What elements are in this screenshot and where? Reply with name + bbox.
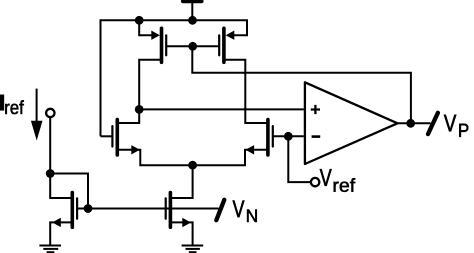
ground (tail) [182,246,204,253]
wire Iref node to mirror gates [50,174,88,209]
wire tail node to M5 drain [171,165,193,198]
wire op-amp output [398,122,431,124]
wire M1 source to tail node [118,150,193,165]
wire PMOS gate interconnect [166,45,219,47]
wire M3 drain to M1 drain [118,60,162,123]
VDD supply bar [183,0,202,3]
ground (left) [39,246,61,253]
transistor M1 (left diff-pair NMOS) [112,120,139,155]
wire M5 source to ground [171,222,193,245]
label VP [444,115,468,137]
wire M6 drain [50,174,73,199]
transistor M5 (tail NMOS) [166,193,191,228]
wire M3 source tap [139,20,153,35]
wire M2 gate lead / minus input [273,135,304,137]
wire Iref terminal drop [49,118,51,174]
junction NMOS mirror gate node [84,204,93,213]
port slash VN [216,200,224,220]
label VN [233,201,257,223]
label Iref [0,95,24,114]
wire top rail with left gate drop and right source drop [101,20,248,136]
wire Vref drop [288,136,310,182]
transistor M2 (right diff-pair NMOS) [246,120,273,155]
terminal Iref (open circle) [46,109,54,117]
wire VDD stub [191,3,193,21]
junction op-amp output node [406,119,415,128]
transistor M4 (right PMOS) [219,28,234,62]
wire M6 source to ground [50,222,73,245]
wire M2 source to tail node [193,150,267,165]
junction Iref node [46,169,55,178]
junction M3 source at rail [135,16,144,25]
junction tail node [188,161,197,170]
wire feedback from PMOS gates to op-amp output [192,46,411,123]
junction PMOS gate node [188,42,197,51]
junction minus input / Vref node [284,132,293,141]
transistor M6 (diode NMOS) [52,193,77,228]
wire M4 drain to M2 drain [224,60,267,123]
wire NMOS mirror gate rail to VN [77,208,219,210]
label Vref [320,169,355,192]
wire plus-input from left drain node [139,108,304,110]
wire gate lead M1 [101,135,114,137]
terminal Vref (open circle) [311,178,319,186]
op-amp U1 [305,82,398,164]
port slash VP [428,113,438,134]
transistor M3 (left PMOS) [151,28,166,62]
Iref current arrow [31,89,43,141]
junction VDD at rail [188,16,197,25]
junction M1 drain node [135,105,144,114]
